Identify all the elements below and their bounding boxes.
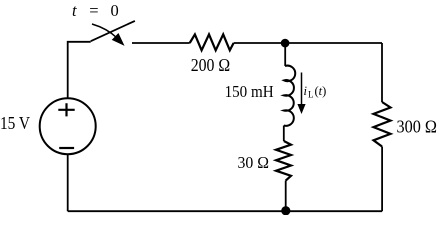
wire top (200 ohm to top-right corner) [234,42,382,44]
svg-text:200 Ω: 200 Ω [191,55,231,75]
svg-text:150 mH: 150 mH [225,82,274,101]
inductor L1 150 mH [284,66,295,126]
resistor R 30 ohm [276,141,291,181]
svg-text:30 Ω: 30 Ω [238,153,270,172]
wire source bottom to bottom-left corner [67,154,69,211]
wire top (switch to 200 ohm) [132,42,190,44]
wire left vertical (source to switch) [68,42,91,99]
wire node to inductor [284,43,286,66]
resistor R 300 ohm [374,102,391,147]
svg-text:t: t [72,1,77,20]
svg-text:0: 0 [111,1,119,20]
svg-text:300 Ω: 300 Ω [397,117,438,137]
svg-text:=: = [89,1,98,20]
wire bottom [68,210,382,212]
wire right vertical bottom [381,147,383,212]
svg-text:iL(t): iL(t) [304,84,327,100]
wire inductor to 30 ohm [283,126,285,142]
node bottom junction [281,206,290,215]
node top junction [281,39,290,48]
resistor R 200 ohm [190,34,234,50]
svg-text:15 V: 15 V [0,113,30,133]
label t = 0 [72,1,119,20]
switch SW1 [91,21,135,45]
wire right vertical top [381,43,383,102]
voltage source V1 15V [40,98,96,154]
current arrow iL(t) [297,73,305,115]
wire 30 ohm to bottom node [285,181,287,212]
